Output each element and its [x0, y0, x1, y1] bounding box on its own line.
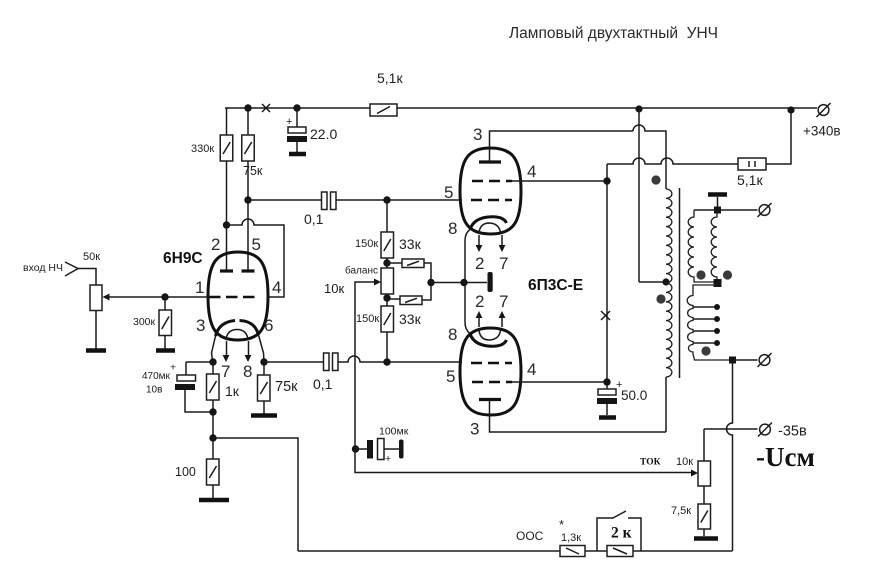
polarity dot secondary upper right — [723, 270, 732, 279]
svg-text:7: 7 — [221, 362, 230, 381]
capacitor 0,1 (lower) — [313, 353, 338, 392]
svg-text:-Uсм: -Uсм — [756, 442, 815, 472]
tap wires secondary — [693, 307, 716, 343]
svg-text:50.0: 50.0 — [621, 388, 647, 403]
wire plate1 to grid2 with hop — [227, 219, 285, 297]
wire anode2 to 0,1 lower — [264, 361, 324, 363]
tube upper control grid dashes — [471, 199, 512, 202]
svg-text:33к: 33к — [399, 311, 422, 327]
wire CT riser — [639, 109, 666, 282]
input connector — [65, 262, 78, 276]
capacitor 100mk electrolytic — [352, 426, 409, 466]
svg-text:-35в: -35в — [778, 424, 807, 440]
wire 75k bottom to pin5 — [247, 161, 249, 271]
ground 7,5k — [694, 536, 718, 541]
polarity dot secondary upper left — [696, 270, 705, 279]
node junction pot / 150k lower — [383, 294, 390, 301]
svg-text:2: 2 — [211, 235, 220, 254]
wire OOC bottom run — [298, 550, 733, 552]
wire lower anode lead — [490, 400, 667, 433]
svg-text:100мк: 100мк — [379, 426, 409, 438]
wire feedback drop with hop over -35v wire — [727, 360, 733, 551]
capacitor 470mk electrolytic — [142, 362, 213, 413]
wire secondary bottom to terminal — [732, 359, 758, 361]
resistor 300k — [133, 297, 172, 349]
svg-text:Ламповый двухтактный УНЧ: Ламповый двухтактный УНЧ — [509, 25, 718, 42]
node junction 1k bottom — [209, 408, 216, 415]
capacitor 0,1 (upper) — [304, 192, 336, 227]
wire anode hop over CT vertical — [633, 125, 666, 189]
potentiometer balance 10k — [324, 263, 394, 298]
resistor 150k upper — [355, 200, 394, 263]
node junction rail/5,1k riser — [787, 106, 794, 113]
node junction 150k upper / pot — [383, 259, 390, 266]
transformer primary winding — [666, 189, 672, 377]
wire lower screen lead — [512, 381, 607, 383]
node junction input/grid — [161, 293, 168, 300]
wire pot bottom to ground — [95, 311, 97, 350]
node junction anode1/grid2 wire — [223, 221, 230, 228]
wire top +340v rail — [225, 107, 817, 109]
svg-text:33к: 33к — [399, 236, 422, 252]
svg-text:10к: 10к — [324, 281, 344, 296]
node junction cathode1 — [209, 358, 216, 365]
capacitor 22.0 electrolytic — [286, 108, 337, 152]
svg-text:10в: 10в — [146, 385, 162, 396]
svg-text:300к: 300к — [133, 316, 156, 328]
resistor 7,5k — [671, 486, 711, 536]
wire 75k top lead — [247, 108, 249, 135]
wire -35v down to tok pot — [703, 429, 705, 461]
wire screen bus vertical — [606, 164, 608, 389]
svg-text:75к: 75к — [275, 379, 298, 395]
svg-text:150к: 150к — [355, 238, 378, 250]
wire balance wiper down — [355, 282, 374, 449]
svg-text:+340в: +340в — [803, 124, 841, 139]
resistor 5,1k (II 2W) — [737, 158, 766, 188]
secondary winding upper left — [688, 210, 717, 282]
tube 6N9S anode plate 2 — [242, 269, 255, 272]
terminal +340v — [803, 103, 841, 139]
svg-text:ООС: ООС — [516, 529, 544, 543]
node junction primary CT — [662, 278, 669, 285]
svg-text:1,3к: 1,3к — [561, 532, 581, 544]
terminal output top — [758, 203, 772, 217]
node X mark on screen bus — [601, 311, 610, 320]
heater arrows upper tube — [478, 235, 480, 246]
svg-text:ТОК: ТОК — [640, 458, 661, 468]
svg-text:7: 7 — [499, 292, 508, 311]
heater arrow pin7 — [226, 341, 228, 356]
svg-text:5: 5 — [252, 235, 261, 254]
svg-text:+: + — [170, 362, 176, 374]
node junction anode2/0,1 — [260, 358, 267, 365]
polarity dot secondary lower — [701, 346, 710, 355]
ground 50.0 — [599, 415, 616, 420]
svg-text:3: 3 — [196, 316, 205, 335]
node junction 33k common — [427, 279, 434, 286]
node junction cathode bus — [460, 279, 467, 286]
tube 6N9S anode plate 1 — [220, 269, 233, 272]
tube lower control grid dashes — [471, 362, 512, 365]
ground 100 — [199, 498, 229, 503]
node junction 0,1 upper tap — [244, 196, 251, 203]
wire -35v feed — [704, 428, 758, 430]
svg-text:вход НЧ: вход НЧ — [23, 262, 63, 274]
wire screen bus horizontal with hops — [607, 158, 738, 164]
svg-text:+: + — [385, 453, 391, 465]
resistor 5,1k (top) — [370, 70, 403, 116]
wire common node to bias bar — [431, 282, 487, 284]
svg-text:5,1к: 5,1к — [737, 172, 763, 188]
svg-text:10к: 10к — [676, 456, 693, 468]
svg-text:2: 2 — [475, 254, 484, 273]
svg-text:5: 5 — [444, 183, 453, 202]
resistor 75k (lower) — [258, 362, 299, 414]
switch bypass for 2k — [597, 511, 641, 551]
ground 75k lower — [251, 413, 277, 418]
wire to upper 0,1 cap — [248, 199, 322, 201]
svg-text:330к: 330к — [191, 143, 214, 155]
wire 330k bottom to pin2 — [226, 161, 228, 271]
heater arrow pin8 — [248, 341, 250, 356]
transformer core — [679, 188, 681, 378]
svg-text:*: * — [559, 517, 564, 532]
svg-text:3: 3 — [470, 420, 479, 439]
wire primary bottom to anode wire — [665, 377, 667, 432]
svg-text:0,1: 0,1 — [313, 376, 333, 392]
svg-text:баланс: баланс — [345, 265, 378, 277]
resistor 330k — [191, 135, 233, 161]
wire cathode pin6 lead — [259, 335, 265, 362]
svg-text:8: 8 — [448, 325, 457, 344]
node junction secondary mid — [714, 279, 722, 287]
svg-text:6: 6 — [264, 316, 273, 335]
svg-text:6П3С-Е: 6П3С-Е — [528, 277, 583, 294]
svg-text:4: 4 — [527, 360, 536, 379]
potentiometer tok 10k — [676, 456, 711, 486]
tube 6N9S grid dashed line — [209, 296, 255, 299]
tube upper cathode arcs — [470, 217, 507, 230]
node junction top rail / CT riser — [635, 105, 642, 112]
svg-text:4: 4 — [527, 162, 536, 181]
node junction speaker return — [729, 357, 736, 364]
svg-text:2 к: 2 к — [611, 525, 632, 542]
node X mark on top rail — [262, 104, 270, 112]
polarity dot primary mid — [656, 294, 665, 303]
svg-text:150к: 150к — [356, 313, 379, 325]
resistor 1,3k — [560, 532, 585, 557]
wire secondary top to terminal — [694, 209, 758, 211]
resistor 150k lower — [356, 298, 394, 362]
svg-text:3: 3 — [473, 125, 482, 144]
node junction screen upper — [603, 177, 610, 184]
svg-text:100: 100 — [175, 465, 196, 479]
wire upper anode lead — [490, 131, 634, 162]
node junction 75k/top rail — [244, 104, 251, 111]
wire upper screen lead — [512, 180, 607, 182]
wire 0,1 upper to grid of upper 6P3S — [336, 199, 462, 201]
svg-text:1: 1 — [195, 278, 204, 297]
svg-text:5,1к: 5,1к — [377, 70, 403, 86]
ground 300k — [156, 348, 175, 353]
wire cathode pin3 lead — [212, 336, 216, 362]
tube upper screen grid dashes — [472, 180, 512, 183]
resistor 1k — [207, 362, 240, 412]
svg-text:470мк: 470мк — [142, 371, 171, 382]
node junction screen lower — [603, 378, 610, 385]
secondary winding lower with taps — [687, 285, 732, 360]
svg-text:50к: 50к — [83, 251, 100, 263]
ground secondary top — [708, 192, 727, 197]
svg-text:+: + — [286, 116, 292, 128]
secondary winding upper right — [711, 212, 717, 282]
tube upper anode bar — [479, 160, 501, 163]
svg-text:5: 5 — [446, 367, 455, 386]
wire grid1 lead — [165, 296, 209, 298]
wire ground stem to sec node — [717, 197, 719, 210]
wire OOC feedback run — [213, 438, 298, 551]
svg-text:7,5к: 7,5к — [671, 505, 691, 517]
wire cathode junction to 75k lower junction — [186, 361, 213, 363]
terminal -35v — [758, 423, 807, 440]
svg-text:8: 8 — [448, 219, 457, 238]
wire down to OOC node — [212, 412, 214, 438]
tube 6P3S-E upper envelope — [460, 148, 521, 234]
tube 6P3S-E lower envelope — [460, 328, 521, 415]
ground 50k pot — [86, 348, 106, 353]
node junction 150k bottom tap — [383, 358, 390, 365]
potentiometer 50k — [83, 251, 165, 311]
polarity dot primary top — [651, 175, 660, 184]
resistor 33k lower — [387, 286, 431, 327]
terminal bias bar — [488, 272, 493, 292]
tube lower screen grid dashes — [472, 381, 512, 384]
wire bias feed to tok pot — [355, 449, 692, 473]
terminal output bottom — [758, 353, 772, 367]
wire input to pot — [78, 269, 96, 286]
node junction 22.0 cap/top rail — [293, 104, 300, 111]
tap dots — [714, 304, 720, 310]
svg-text:75к: 75к — [243, 164, 263, 178]
heater arrows lower tube — [478, 318, 480, 327]
resistor 2k — [607, 525, 633, 557]
tube 6N9S envelope — [208, 252, 268, 340]
node junction 150k top — [383, 196, 390, 203]
node junction secondary top — [714, 207, 721, 214]
tube lower cathode arcs — [470, 334, 507, 347]
tube 6N9S cathode arcs — [216, 321, 259, 337]
wire 5,1k to +340 rail — [766, 109, 791, 164]
node junction OOC tap — [209, 434, 216, 441]
svg-text:1к: 1к — [225, 383, 240, 399]
resistor 33k upper — [387, 236, 431, 279]
svg-text:2: 2 — [475, 292, 484, 311]
wire 330k top lead — [226, 108, 228, 135]
resistor 100 — [175, 438, 219, 498]
svg-text:7: 7 — [499, 254, 508, 273]
svg-text:0,1: 0,1 — [304, 211, 324, 227]
wire 0,1 lower to grid of lower 6P3S with hop — [338, 356, 462, 362]
svg-text:8: 8 — [243, 362, 252, 381]
resistor 75k (upper) — [242, 135, 263, 178]
capacitor 50.0 electrolytic — [597, 379, 647, 415]
svg-text:22.0: 22.0 — [310, 126, 337, 142]
wire cathode bus pin8 to pin8 — [465, 230, 470, 334]
tube lower anode bar — [479, 398, 501, 401]
svg-text:4: 4 — [272, 278, 281, 297]
svg-text:6Н9С: 6Н9С — [163, 250, 203, 267]
ground below 22.0 — [289, 152, 306, 157]
